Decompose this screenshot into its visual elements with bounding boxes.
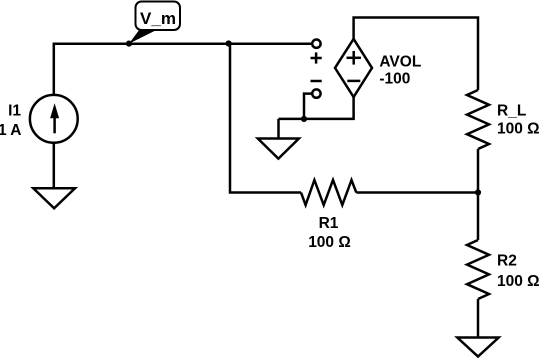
svg-text:V_m: V_m <box>140 9 176 28</box>
probe V_m callout <box>129 2 180 44</box>
wire R1 to output node <box>356 191 478 194</box>
wire R_L to output node <box>477 149 480 193</box>
wire − terminal to lower rail <box>304 94 312 119</box>
dependent source AVOL (diamond) <box>335 39 372 97</box>
wire diamond top to R_L top <box>354 18 478 91</box>
wire output node to R2 <box>477 193 480 241</box>
svg-text:R2: R2 <box>497 253 517 270</box>
label + (non-inverting input) <box>311 52 322 63</box>
svg-text:AVOL: AVOL <box>379 53 421 70</box>
ground (below R2) <box>457 338 498 357</box>
wire lower rail to diamond bottom <box>279 97 354 119</box>
node junction top rail <box>226 40 232 46</box>
svg-text:100 Ω: 100 Ω <box>308 234 351 251</box>
wire junction down to R1 row <box>230 44 301 193</box>
svg-text:100 Ω: 100 Ω <box>497 273 540 290</box>
wire R2 to bottom ground <box>477 299 480 338</box>
wire top rail from I1 to + terminal <box>54 44 311 94</box>
terminal − (open circle) <box>312 89 320 97</box>
node output junction <box>475 189 481 195</box>
svg-text:I1: I1 <box>8 102 21 119</box>
current source I1 <box>30 95 78 143</box>
svg-text:1 A: 1 A <box>0 122 22 139</box>
terminal + (open circle) <box>312 40 320 48</box>
resistor R2 <box>467 240 489 299</box>
resistor R_L <box>467 90 489 149</box>
svg-text:100 Ω: 100 Ω <box>497 121 540 138</box>
resistor R1 <box>301 180 356 205</box>
ground (inverting input reference) <box>258 139 299 159</box>
wire I1 bottom to ground <box>53 143 56 188</box>
svg-text:-100: -100 <box>379 71 410 88</box>
svg-text:R_L: R_L <box>497 103 526 120</box>
svg-text:R1: R1 <box>319 215 339 232</box>
label − (inverting input) <box>311 80 322 83</box>
ground (below I1) <box>33 188 75 208</box>
wire lower rail to middle ground <box>277 119 280 139</box>
node V_m probe junction <box>126 41 132 47</box>
node lower rail junction <box>301 116 307 122</box>
